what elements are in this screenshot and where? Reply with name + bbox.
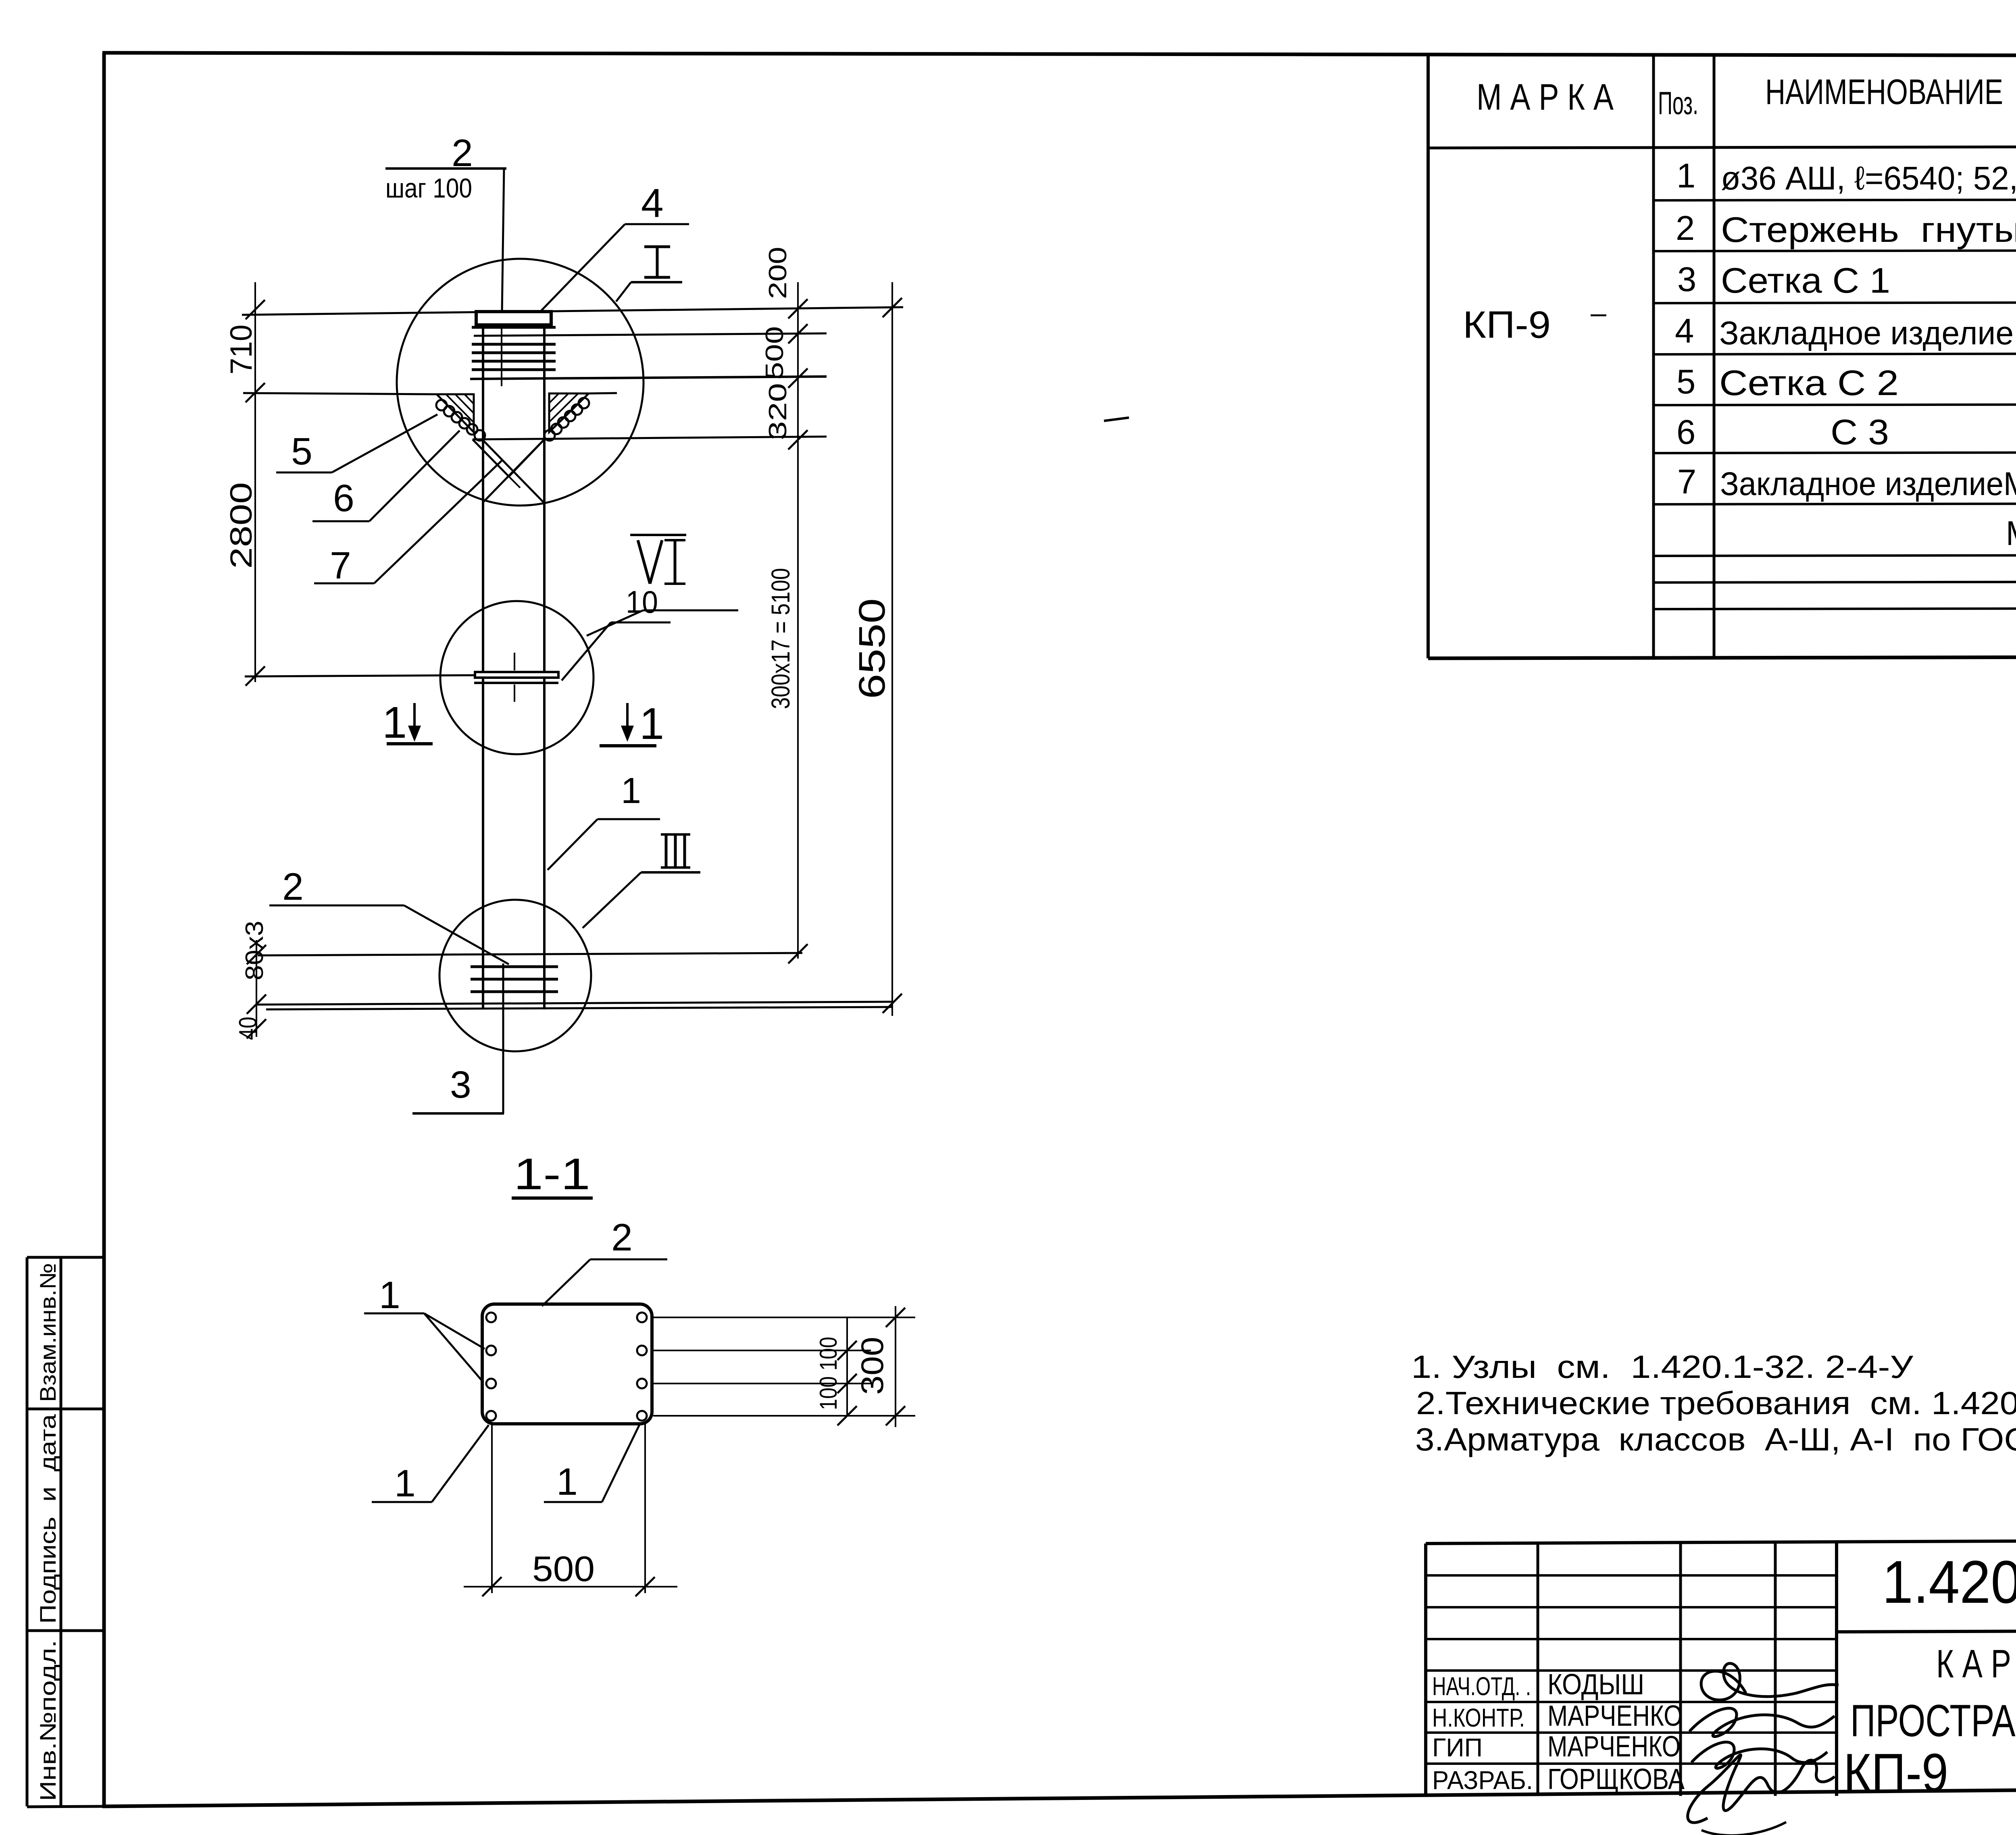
svg-text:3: 3	[1677, 260, 1696, 299]
svg-text:7: 7	[1677, 463, 1696, 501]
svg-text:4: 4	[1675, 312, 1694, 350]
svg-text:1: 1	[556, 1461, 578, 1503]
svg-text:Подпись и дата: Подпись и дата	[35, 1414, 60, 1624]
svg-text:1. Узлы см. 1.420.1-32. 2-4-: 1. Узлы см. 1.420.1-32. 2-4-У	[1411, 1349, 1914, 1385]
corbel top extension lines	[243, 393, 617, 394]
svg-text:НАЧ.ОТД. .: НАЧ.ОТД. .	[1432, 1672, 1531, 1701]
svg-text:ГОРЩКОВА: ГОРЩКОВА	[1547, 1763, 1685, 1795]
svg-text:2: 2	[1676, 209, 1695, 248]
detail circle VI	[440, 601, 594, 754]
section dimension 500	[464, 1424, 677, 1596]
svg-text:1: 1	[621, 771, 641, 811]
svg-text:1: 1	[379, 1274, 400, 1317]
leader 2 top with label shag 100	[385, 132, 506, 312]
svg-text:1: 1	[639, 699, 664, 749]
svg-text:7: 7	[330, 544, 351, 587]
svg-text:Сетка С 1: Сетка С 1	[1721, 260, 1890, 300]
section rebar dots	[486, 1313, 647, 1421]
svg-text:500: 500	[761, 326, 789, 380]
leader 3 bottom	[412, 963, 504, 1113]
table rows content	[1675, 157, 2016, 555]
column centerline below cap	[501, 314, 502, 386]
left attribute boxes grid	[27, 1257, 104, 1807]
svg-text:С 3: С 3	[1831, 412, 1889, 452]
leader 7	[314, 460, 502, 587]
svg-text:710: 710	[224, 325, 258, 374]
right corbel bar hooks chain	[544, 398, 589, 441]
svg-text:Закладное изделиеМН 2: Закладное изделиеМН 2	[1720, 466, 2016, 502]
section 1-1 column outline	[482, 1304, 652, 1424]
svg-text:Сетка С 2: Сетка С 2	[1719, 363, 1899, 403]
section leader 1 bottom right	[544, 1423, 640, 1503]
right corbel hatch triangle	[549, 393, 589, 432]
left corbel hatch triangle	[437, 394, 474, 432]
column body outline	[483, 325, 544, 1009]
leader 5	[276, 414, 437, 473]
svg-text:ГИП: ГИП	[1432, 1733, 1483, 1762]
section title 1-1	[512, 1149, 593, 1199]
leader 6	[312, 431, 460, 521]
left dimension line 710 and 2800	[224, 282, 265, 686]
svg-text:6550: 6550	[852, 598, 893, 699]
svg-text:40: 40	[234, 1017, 262, 1040]
section leader 1 top left	[364, 1274, 485, 1382]
svg-text:3: 3	[450, 1063, 471, 1106]
svg-text:3.Арматура классов А-Ш, А-I: 3.Арматура классов А-Ш, А-I по ГОСТ5781-…	[1415, 1421, 2016, 1457]
section right extension lines	[653, 1317, 915, 1416]
extension line to node VI	[245, 675, 475, 676]
svg-text:500: 500	[532, 1549, 595, 1589]
left corbel bar hooks chain	[436, 400, 485, 441]
svg-text:Стержень гнутый: Стержень гнутый	[1721, 210, 2016, 250]
column cap plate	[476, 312, 551, 325]
table header text	[1477, 64, 2016, 150]
notes text	[1411, 1349, 2016, 1457]
svg-text:НАИМЕНОВАНИЕ: НАИМЕНОВАНИЕ	[1765, 72, 2003, 112]
section leader 1 bottom left	[372, 1425, 489, 1505]
svg-text:2: 2	[282, 865, 304, 908]
svg-text:5: 5	[291, 430, 312, 473]
title block grid	[1426, 1539, 2016, 1797]
section dimension 300	[854, 1306, 905, 1427]
svg-text:Инв.№подл.: Инв.№подл.	[35, 1640, 60, 1801]
section mark 1-1 left	[382, 698, 433, 747]
section dimension 100 100	[815, 1317, 857, 1425]
detail circle I	[397, 259, 644, 506]
svg-text:100: 100	[815, 1337, 842, 1371]
svg-text:300: 300	[854, 1337, 890, 1395]
detail label VI roman with leader	[587, 535, 738, 636]
detail circle III	[439, 900, 591, 1051]
svg-text:М А Р К А: М А Р К А	[1477, 77, 1614, 118]
detail label I roman	[616, 247, 682, 302]
top reference line	[242, 307, 903, 315]
document number 1.420.1-32 2-4 -5	[1882, 1537, 2016, 1616]
svg-text:МАРЧЕНКО: МАРЧЕНКО	[1547, 1700, 1683, 1732]
table column MARKA value KP-9	[1463, 297, 1606, 346]
svg-text:2800: 2800	[224, 482, 258, 569]
svg-text:ø36 АШ, ℓ=6540; 52,33кг: ø36 АШ, ℓ=6540; 52,33кг	[1721, 160, 2016, 197]
svg-text:Поз.: Поз.	[1658, 85, 1698, 121]
svg-text:2.Технические требования см.: 2.Технические требования см. 1.420.1-32 …	[1416, 1385, 2016, 1421]
svg-text:1-1: 1-1	[514, 1149, 590, 1199]
svg-text:Закладное изделиеМН1: Закладное изделиеМН1	[1719, 315, 2016, 352]
svg-text:320: 320	[764, 383, 792, 440]
specification table grid	[1428, 55, 2016, 658]
detail label III roman with leader	[583, 834, 700, 928]
svg-text:6: 6	[333, 477, 354, 520]
svg-text:1.420.1-32.: 1.420.1-32.	[1882, 1548, 2016, 1616]
svg-text:КОДЫШ: КОДЫШ	[1547, 1669, 1644, 1701]
svg-text:РАЗРАБ.: РАЗРАБ.	[1432, 1766, 1533, 1795]
right outer dimension line 6550	[852, 282, 902, 1016]
right inner dimension line 200 500 320 300x17	[761, 247, 808, 963]
svg-text:МН 6: МН 6	[2006, 514, 2016, 553]
svg-text:ПРОСТРАНСТВЕННЫЙ: ПРОСТРАНСТВЕННЫЙ	[1850, 1696, 2016, 1746]
svg-text:2: 2	[611, 1216, 633, 1259]
svg-text:КП-9: КП-9	[1843, 1742, 1948, 1803]
svg-text:КП-9: КП-9	[1463, 304, 1551, 346]
svg-text:1: 1	[394, 1462, 416, 1505]
svg-text:шаг 100: шаг 100	[385, 173, 472, 204]
svg-text:300х17 = 5100: 300х17 = 5100	[766, 568, 795, 709]
section leader 2	[542, 1216, 667, 1306]
leader 2 bottom	[269, 865, 509, 964]
svg-text:5: 5	[1677, 363, 1695, 401]
title block names	[1547, 1669, 1685, 1795]
embed plate node VI	[474, 653, 558, 702]
upper stirrups zone	[470, 327, 827, 379]
svg-text:1: 1	[382, 698, 407, 747]
bent bar V lines in column	[473, 439, 544, 502]
svg-text:МАРЧЕНКО: МАРЧЕНКО	[1547, 1731, 1681, 1763]
svg-text:Н.КОНТР.: Н.КОНТР.	[1432, 1703, 1525, 1732]
section mark 1-1 right	[600, 699, 664, 749]
detail label 4 with leader	[541, 181, 689, 311]
bottom stirrups zone	[257, 953, 892, 1009]
svg-text:Взам.инв.№: Взам.инв.№	[35, 1263, 60, 1402]
svg-text:200: 200	[764, 247, 792, 299]
svg-text:10: 10	[626, 584, 658, 620]
svg-text:6: 6	[1677, 413, 1695, 451]
left bottom dimension 80x3 and 40	[234, 921, 269, 1040]
leader 1 main bars	[548, 771, 660, 870]
stray dash mark	[1104, 418, 1129, 421]
svg-text:80х3: 80х3	[241, 921, 269, 980]
svg-text:1: 1	[1677, 157, 1695, 195]
title KARKAS PROSTRANSTVENNYJ KP-9	[1843, 1642, 2016, 1803]
svg-text:4: 4	[641, 181, 664, 226]
signatures scribble	[1688, 1663, 1839, 1835]
corbel bottom reference line	[473, 437, 827, 439]
svg-text:К А Р К А С: К А Р К А С	[1936, 1642, 2016, 1686]
detail label 10 with leader	[562, 584, 671, 680]
title block signature labels	[1432, 1672, 1533, 1795]
svg-text:100: 100	[815, 1376, 842, 1410]
svg-text:–: –	[1591, 297, 1606, 329]
